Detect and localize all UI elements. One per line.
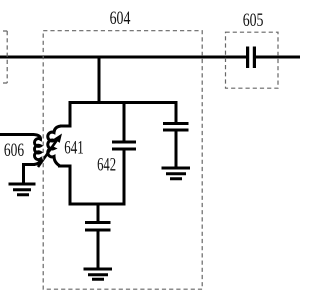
capacitor (bottom): bottom plate bbox=[85, 229, 111, 232]
block 605 dashed boundary bbox=[226, 32, 279, 88]
ground (bottom branch) bbox=[84, 269, 113, 279]
wire: bottom capacitor stub from bottom wire bbox=[97, 204, 100, 221]
block 604 dashed boundary bbox=[43, 31, 202, 290]
wire: right shunt branch vertical from inner wire bbox=[175, 101, 178, 122]
wire: right shunt branch to ground bbox=[175, 132, 178, 168]
capacitor (right shunt, unlabeled): top plate bbox=[163, 122, 189, 125]
wire: bottom capacitor to ground bbox=[97, 232, 100, 269]
capacitor C605: right plate bbox=[253, 47, 256, 69]
wire: inner horizontal node wire in block 604 bbox=[69, 101, 177, 104]
arrowhead of variable-inductor arrow bbox=[54, 134, 62, 143]
svg-text:605: 605 bbox=[243, 10, 264, 31]
inductor (primary winding of transformer 606) bbox=[34, 135, 41, 165]
ground (right shunt branch) bbox=[162, 168, 191, 179]
wire: 642 branch vertical (bottom) bbox=[123, 151, 126, 206]
wire: inductor 641 bottom lead to lower-left corner of loop bbox=[58, 166, 70, 204]
capacitor (bottom, unlabeled): top plate bbox=[85, 221, 111, 224]
svg-text:606: 606 bbox=[4, 140, 24, 161]
wire: main horizontal bus, right segment bbox=[256, 56, 301, 59]
wire: stub from main bus down into block 604 bbox=[98, 57, 101, 103]
arrow shaft: variable-inductor arrow through 641 bbox=[38, 140, 57, 167]
inductor L641 (variable winding, right side of transformer) bbox=[48, 126, 61, 166]
wire: main horizontal bus, left segment bbox=[0, 56, 246, 59]
wire: 642 branch vertical (top) bbox=[123, 103, 126, 141]
capacitor C642: top plate bbox=[112, 141, 136, 144]
partial dashed boundary at left edge (input block) bbox=[0, 31, 7, 83]
wire: left branch down to inductor 641 top lead bbox=[60, 101, 70, 126]
capacitor (right shunt): bottom plate bbox=[163, 129, 189, 132]
capacitor C642: bottom plate bbox=[112, 148, 136, 151]
ground (606 winding) bbox=[9, 184, 36, 195]
wire: bottom horizontal wire of block 604 bbox=[69, 203, 126, 206]
svg-text:642: 642 bbox=[97, 154, 116, 175]
svg-text:641: 641 bbox=[64, 138, 84, 159]
wire: left input lead to transformer winding 606 bbox=[0, 133, 34, 136]
wire: 606 winding bottom lead to ground bbox=[24, 165, 36, 184]
svg-text:604: 604 bbox=[110, 8, 131, 29]
capacitor C605 (series, in block 605): left plate bbox=[246, 47, 249, 69]
